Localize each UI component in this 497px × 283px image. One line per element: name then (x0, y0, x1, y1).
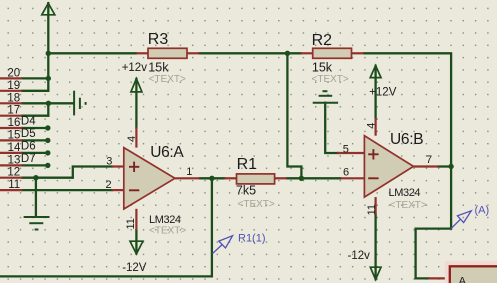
svg-text:7: 7 (426, 154, 432, 166)
svg-text:<TEXT>: <TEXT> (149, 226, 186, 237)
svg-text:11: 11 (366, 204, 378, 215)
svg-text:3: 3 (106, 156, 112, 168)
svg-text:16: 16 (8, 117, 21, 129)
svg-text:D4: D4 (21, 116, 36, 128)
svg-text:18: 18 (7, 92, 20, 104)
svg-text:11: 11 (125, 218, 137, 229)
svg-text:D7: D7 (21, 153, 36, 165)
svg-text:R3: R3 (148, 31, 169, 48)
svg-text:+12v: +12v (122, 62, 148, 74)
svg-text:20: 20 (7, 67, 20, 79)
svg-text:12: 12 (7, 167, 20, 179)
svg-text:-12V: -12V (122, 262, 147, 274)
svg-text:15: 15 (8, 129, 21, 141)
svg-text:U6:A: U6:A (150, 144, 184, 161)
svg-text:R1: R1 (237, 156, 258, 173)
svg-text:<TEXT>: <TEXT> (238, 199, 275, 210)
svg-text:D5: D5 (21, 128, 36, 140)
svg-text:R1(1): R1(1) (238, 233, 266, 245)
svg-text:2: 2 (106, 179, 112, 191)
svg-text:LM324: LM324 (389, 187, 421, 199)
svg-text:4: 4 (366, 123, 378, 129)
svg-text:A: A (459, 276, 467, 283)
svg-text:6: 6 (343, 167, 349, 179)
svg-text:14: 14 (8, 142, 21, 154)
svg-text:7k5: 7k5 (236, 184, 256, 198)
svg-text:15k: 15k (312, 60, 333, 74)
svg-text:D6: D6 (21, 140, 36, 152)
svg-text:1: 1 (186, 166, 192, 178)
svg-text:<TEXT>: <TEXT> (149, 74, 186, 85)
svg-text:17: 17 (7, 105, 20, 117)
svg-text:5: 5 (343, 143, 349, 155)
svg-text:15k: 15k (148, 60, 169, 74)
svg-text:11: 11 (8, 179, 20, 191)
svg-text:13: 13 (8, 154, 21, 166)
svg-text:<TEXT>: <TEXT> (312, 74, 349, 85)
svg-text:R2: R2 (312, 32, 333, 49)
svg-text:19: 19 (7, 80, 20, 92)
svg-text:<TEXT>: <TEXT> (390, 200, 427, 211)
svg-text:LM324: LM324 (149, 214, 181, 226)
svg-text:+12V: +12V (369, 87, 397, 99)
svg-text:4: 4 (126, 136, 138, 142)
svg-text:-12v: -12v (348, 250, 371, 262)
svg-text:(A): (A) (475, 205, 490, 217)
svg-text:U6:B: U6:B (390, 131, 423, 148)
